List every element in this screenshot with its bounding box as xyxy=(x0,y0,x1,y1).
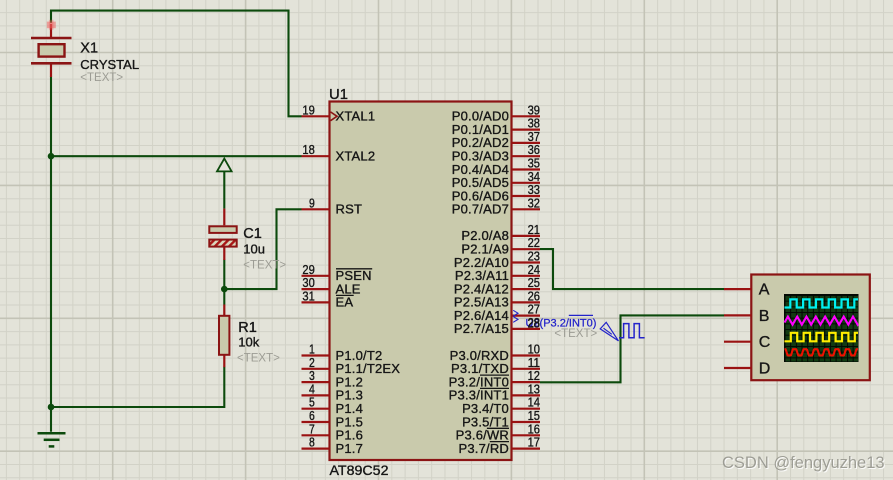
svg-text:18: 18 xyxy=(302,142,314,157)
oscilloscope input stub B xyxy=(724,314,751,316)
pin 13 (P3.3/INT1) stub xyxy=(512,394,541,396)
pin 37 (P0.2/AD2) stub xyxy=(512,142,541,144)
pin 12 (P3.2/INT0) stub xyxy=(512,381,541,383)
overline for INT0 xyxy=(480,374,509,376)
pin 10 (P3.0/RXD) stub xyxy=(512,354,541,356)
pin 24 (P2.3/A11) stub xyxy=(512,275,541,277)
svg-text:B: B xyxy=(759,308,770,325)
svg-text:EA: EA xyxy=(336,295,354,310)
waveform channel C (yellow square) xyxy=(785,333,859,342)
op-amp U1 body (AT89C52 microcontroller) xyxy=(330,102,512,461)
svg-text:XTAL1: XTAL1 xyxy=(336,109,376,124)
oscilloscope screen xyxy=(784,294,859,362)
svg-text:<TEXT>: <TEXT> xyxy=(237,352,280,364)
waveform channel D (red sine) xyxy=(785,349,859,355)
wire: left vertical rail crystal bottom to ground xyxy=(50,77,52,432)
clock input marker on XTAL1 xyxy=(331,112,338,121)
svg-text:P3.7/RD: P3.7/RD xyxy=(458,441,509,456)
pin 3 (P1.2) stub xyxy=(302,381,330,383)
oscilloscope input stub D xyxy=(724,367,751,369)
resistor R1 xyxy=(219,305,229,368)
svg-text:P1.7: P1.7 xyxy=(336,441,364,456)
pin 32 (P0.7/AD7) stub xyxy=(512,208,541,210)
pin 17 (P3.7/RD) stub xyxy=(512,448,541,450)
overline for WR xyxy=(487,427,509,429)
svg-text:AT89C52: AT89C52 xyxy=(330,462,389,478)
svg-text:U1: U1 xyxy=(329,86,348,103)
pin 26 (P2.5/A13) stub xyxy=(512,301,541,303)
svg-text:<TEXT>: <TEXT> xyxy=(80,72,123,84)
pin 23 (P2.2/A10) stub xyxy=(512,261,541,263)
pin 4 (P1.3) stub xyxy=(302,394,330,396)
pin 19 (XTAL1) stub xyxy=(302,115,330,117)
pin 11 (P3.1/TXD) stub xyxy=(512,368,541,370)
pin 21 (P2.0/A8) stub xyxy=(512,235,541,237)
pin 15 (P3.5/T1) stub xyxy=(512,421,541,423)
svg-text:P2.7/A15: P2.7/A15 xyxy=(454,321,509,336)
svg-text:17: 17 xyxy=(528,435,540,450)
waveform channel B (magenta sine) xyxy=(785,317,859,325)
svg-text:19: 19 xyxy=(302,102,314,117)
pin 16 (P3.6/WR) stub xyxy=(512,434,541,436)
pin 33 (P0.6/AD6) stub xyxy=(512,195,541,197)
svg-text:P0.7/AD7: P0.7/AD7 xyxy=(452,202,509,217)
svg-text:31: 31 xyxy=(302,288,314,303)
pin 22 (P2.1/A9) stub xyxy=(512,248,541,250)
wire: P2.1/A9 to oscilloscope channel A xyxy=(540,249,724,289)
node: junction C1/R1/RST xyxy=(221,286,228,293)
overline for RD xyxy=(490,441,509,443)
wire: RST branch xyxy=(224,209,301,289)
overline for EA xyxy=(336,294,354,296)
pin 2 (P1.1/T2EX) stub xyxy=(302,368,330,370)
svg-text:C1: C1 xyxy=(243,226,262,242)
wire: C1 top to XTAL2 net xyxy=(223,171,225,208)
svg-text:CRYSTAL: CRYSTAL xyxy=(80,57,139,72)
pin 29 (PSEN) stub xyxy=(302,275,330,277)
pin 9 (RST) stub xyxy=(302,208,330,210)
generator square-wave glyph xyxy=(619,324,645,338)
svg-text:X1: X1 xyxy=(80,41,98,57)
pin 5 (P1.4) stub xyxy=(302,408,330,410)
pin 27 (P2.6/A14) stub xyxy=(512,315,541,317)
oscilloscope body xyxy=(751,275,870,381)
node: junction crystal/XTAL2 xyxy=(48,153,55,160)
pin 36 (P0.3/AD3) stub xyxy=(512,155,541,157)
wire: R1 top xyxy=(223,289,225,304)
ground xyxy=(38,433,66,446)
svg-text:R1: R1 xyxy=(238,320,257,336)
generator cone symbol xyxy=(600,322,618,341)
blue chevron markers at pin 28 xyxy=(513,310,518,322)
svg-text:28: 28 xyxy=(528,316,540,331)
pin 31 (EA) stub xyxy=(302,301,330,303)
node: junction ground rail xyxy=(48,404,55,411)
pin 34 (P0.5/AD5) stub xyxy=(512,182,541,184)
pin 14 (P3.4/T0) stub xyxy=(512,408,541,410)
pin 25 (P2.4/A12) stub xyxy=(512,288,541,290)
crystal X1 xyxy=(31,20,72,77)
terminal arrow on C1 top wire xyxy=(217,159,232,172)
svg-text:CSDN @fengyuzhe13: CSDN @fengyuzhe13 xyxy=(722,454,885,472)
svg-text:<TEXT>: <TEXT> xyxy=(554,328,597,340)
wire: XTAL2 branch xyxy=(51,155,302,157)
oscilloscope input stub C xyxy=(724,341,751,343)
svg-text:32: 32 xyxy=(528,195,540,210)
pin 6 (P1.5) stub xyxy=(302,421,330,423)
svg-text:RST: RST xyxy=(336,202,363,217)
capacitor C1 xyxy=(209,209,236,260)
overline for INT1 xyxy=(480,387,509,389)
svg-text:D: D xyxy=(759,361,771,378)
overline for PSEN xyxy=(336,268,372,270)
pin 18 (XTAL2) stub xyxy=(302,155,330,157)
svg-text:C: C xyxy=(759,334,771,351)
svg-text:9: 9 xyxy=(309,195,315,210)
pin 30 (ALE) stub xyxy=(302,288,330,290)
wire: R1 bottom to ground rail xyxy=(51,367,224,407)
svg-text:<TEXT>: <TEXT> xyxy=(243,259,286,271)
svg-text:A: A xyxy=(759,282,770,299)
overline for blue INT0 xyxy=(569,314,593,316)
waveform channel A (cyan square) xyxy=(785,299,859,307)
oscilloscope input stub A xyxy=(724,288,751,290)
pin 35 (P0.4/AD4) stub xyxy=(512,168,541,170)
svg-text:XTAL2: XTAL2 xyxy=(336,149,376,164)
wire: C1 bottom to RST node xyxy=(223,260,225,290)
wire: crystal top to XTAL1 (net X1-XTAL1) xyxy=(51,11,302,117)
pin 39 (P0.0/AD0) stub xyxy=(512,115,541,117)
pin 8 (P1.7) stub xyxy=(302,448,330,450)
svg-text:10k: 10k xyxy=(238,335,259,350)
pin 38 (P0.1/AD1) stub xyxy=(512,129,541,131)
pin 7 (P1.6) stub xyxy=(302,434,330,436)
svg-text:8: 8 xyxy=(309,435,315,450)
pin 28 (P2.7/A15) stub xyxy=(512,328,541,330)
pin 1 (P1.0/T2) stub xyxy=(302,354,330,356)
svg-text:10u: 10u xyxy=(243,241,265,256)
wire: P3.2/INT0 to oscilloscope channel B xyxy=(540,315,724,382)
